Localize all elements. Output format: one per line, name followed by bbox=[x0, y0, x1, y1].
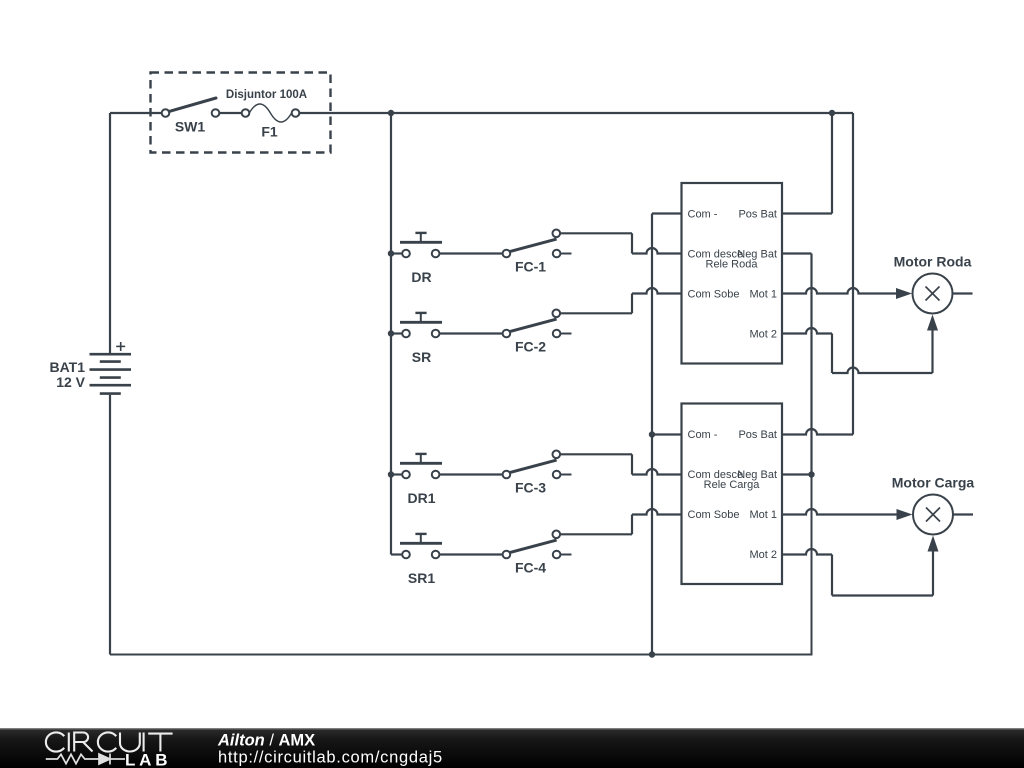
switch SW1 bbox=[162, 98, 220, 117]
wire DR1 to FC-3 bbox=[439, 473, 502, 475]
relay box Rele Carga bbox=[682, 404, 783, 585]
wire bus to SR1 bbox=[391, 553, 402, 555]
svg-text:DR: DR bbox=[411, 269, 431, 285]
wire DR to FC-1 bbox=[439, 252, 502, 254]
dashed enclosure Disjuntor box bbox=[151, 73, 331, 153]
svg-text:Com -: Com - bbox=[688, 209, 718, 221]
motor M2 Motor Carga bbox=[913, 495, 953, 535]
motor M1 Motor Roda bbox=[913, 274, 953, 314]
wire bus to DR bbox=[391, 252, 402, 254]
CircuitLab logo resistor-diode squiggle bbox=[46, 754, 125, 765]
CircuitLab logo CIRCUIT (thin stroked letters) bbox=[46, 732, 173, 751]
wire SR1 to FC-4 bbox=[439, 553, 502, 555]
svg-text:FC-3: FC-3 bbox=[515, 479, 546, 495]
pushbutton SR bbox=[400, 313, 442, 337]
svg-text:Pos Bat: Pos Bat bbox=[738, 429, 777, 441]
svg-text:Ailton / AMX: Ailton / AMX bbox=[217, 732, 315, 750]
svg-text:Mot 1: Mot 1 bbox=[749, 289, 777, 301]
svg-text:Mot 2: Mot 2 bbox=[749, 549, 777, 561]
svg-text:FC-1: FC-1 bbox=[515, 258, 546, 274]
wire relay1 Neg Bat riser (x=811.5) bbox=[782, 252, 812, 254]
svg-text:Motor Carga: Motor Carga bbox=[892, 475, 975, 491]
pushbutton DR bbox=[400, 233, 442, 257]
wire relay2 Mot 1 to Motor Carga bbox=[782, 509, 898, 515]
switch FC-4 (SPDT) bbox=[503, 531, 572, 559]
svg-text:http://circuitlab.com/cngdaj5: http://circuitlab.com/cngdaj5 bbox=[218, 749, 443, 767]
svg-text:Motor Roda: Motor Roda bbox=[894, 254, 972, 270]
battery BAT1 bbox=[90, 342, 132, 394]
wire relay2 Com- stub bbox=[652, 433, 682, 435]
svg-text:Mot 1: Mot 1 bbox=[749, 509, 777, 521]
svg-text:BAT1: BAT1 bbox=[49, 359, 85, 375]
wire FC-2 to Rele Roda Com Sobe bbox=[560, 312, 632, 314]
pushbutton SR1 bbox=[400, 534, 442, 558]
wire relay2 Mot 2 to Motor Carga bottom bbox=[782, 549, 832, 555]
node Com- riser / relay2 Com- junction bbox=[649, 431, 655, 437]
wire relay2 Pos Bat bbox=[782, 429, 853, 435]
arrow into Motor Roda left bbox=[896, 288, 912, 299]
node bottom rail / Com- riser junction bbox=[649, 651, 655, 657]
pushbutton DR1 bbox=[400, 454, 442, 478]
svg-text:Rele Carga: Rele Carga bbox=[704, 479, 761, 491]
wire FC-1 to Rele Roda Com desce bbox=[560, 232, 632, 234]
arrow into Motor Carga bottom bbox=[928, 536, 939, 552]
switch FC-1 (SPDT) bbox=[503, 230, 572, 258]
arrow into Motor Carga left bbox=[897, 509, 913, 520]
node top rail / Pos Bat riser junction bbox=[829, 110, 835, 116]
svg-text:Com Sobe: Com Sobe bbox=[688, 509, 740, 521]
svg-text:SR: SR bbox=[412, 349, 431, 365]
svg-text:Com -: Com - bbox=[688, 429, 718, 441]
wire top rail riser to relay2 Pos Bat (x=853) bbox=[852, 113, 854, 435]
wire FC-3 to Rele Carga Com desce bbox=[560, 453, 632, 455]
wire top rail from battery to SW1 bbox=[110, 112, 162, 114]
wire relay2 Neg Bat stub bbox=[782, 473, 812, 475]
wire bus to SR bbox=[391, 332, 402, 334]
wire left bus vertical bbox=[390, 113, 392, 555]
svg-text:Disjuntor 100A: Disjuntor 100A bbox=[226, 89, 307, 101]
wire battery bottom riser bbox=[109, 395, 111, 655]
svg-text:SW1: SW1 bbox=[175, 119, 206, 135]
node bus junction SR bbox=[388, 330, 394, 336]
wire Motor Carga right stub bbox=[953, 513, 973, 515]
wire top rail bus to right riser bbox=[391, 112, 853, 114]
arrow into Motor Roda bottom bbox=[927, 315, 938, 331]
fuse F1 bbox=[242, 104, 300, 122]
wire relay1 Pos Bat to top rail bbox=[782, 212, 832, 214]
svg-text:DR1: DR1 bbox=[407, 490, 435, 506]
svg-text:Mot 2: Mot 2 bbox=[749, 329, 777, 341]
wire bus to DR1 bbox=[391, 473, 402, 475]
wire FC-4 to Rele Carga Com Sobe bbox=[560, 533, 632, 535]
relay box Rele Roda bbox=[682, 183, 783, 364]
svg-text:12 V: 12 V bbox=[56, 374, 85, 390]
svg-text:Com Sobe: Com Sobe bbox=[688, 289, 740, 301]
svg-text:FC-2: FC-2 bbox=[515, 338, 546, 354]
node top rail / bus junction bbox=[388, 110, 394, 116]
node Neg Bat riser / relay2 Neg Bat junction bbox=[808, 471, 814, 477]
svg-text:LAB: LAB bbox=[125, 751, 171, 768]
wire relay1 Mot 2 to Motor Roda bottom bbox=[782, 328, 832, 334]
node bus junction DR1 bbox=[388, 471, 394, 477]
node bus junction DR bbox=[388, 250, 394, 256]
svg-text:F1: F1 bbox=[261, 124, 278, 140]
wire battery top riser bbox=[109, 113, 111, 353]
wire Com- riser (x=652) relay1 to bottom rail bbox=[652, 212, 682, 214]
svg-text:Pos Bat: Pos Bat bbox=[738, 209, 777, 221]
wire F1 to bus bbox=[299, 112, 391, 114]
svg-text:FC-4: FC-4 bbox=[515, 559, 546, 575]
wire SW1 to F1 bbox=[219, 112, 242, 114]
switch FC-2 (SPDT) bbox=[503, 310, 572, 338]
svg-text:Rele Roda: Rele Roda bbox=[706, 259, 759, 271]
switch FC-3 (SPDT) bbox=[503, 451, 572, 479]
wire Motor Roda right stub bbox=[953, 292, 973, 294]
wire bottom rail bbox=[110, 475, 812, 655]
svg-text:SR1: SR1 bbox=[408, 570, 435, 586]
wire relay1 Mot 1 to Motor Roda bbox=[782, 288, 897, 293]
wire SR to FC-2 bbox=[439, 332, 502, 334]
